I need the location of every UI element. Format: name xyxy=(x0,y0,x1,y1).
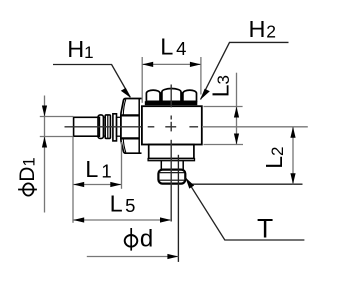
wire: extension line stud right (phi d) xyxy=(177,161,179,262)
wire: vertical centerline through body/stud xyxy=(170,85,172,222)
svg-text:T: T xyxy=(257,214,273,244)
node: thread reference tick xyxy=(177,155,179,161)
node: bottom collar xyxy=(148,145,194,161)
wire: centerline extension right xyxy=(202,126,308,128)
wire: L2 bottom extension xyxy=(189,183,303,185)
node: fitting body xyxy=(142,106,202,144)
dimension L4 xyxy=(142,57,201,103)
dimension L3 xyxy=(204,73,244,145)
dimension L5 xyxy=(73,219,171,221)
node: threaded stud xyxy=(158,170,185,184)
node: swivel hex nut xyxy=(121,99,142,154)
dimension L2 xyxy=(292,127,294,184)
svg-text:d: d xyxy=(140,225,153,252)
dimension phi d xyxy=(87,256,179,258)
dimension L1 xyxy=(73,137,122,223)
node: fitting stem (barb plug) xyxy=(74,114,121,141)
svg-text:L5: L5 xyxy=(110,190,136,216)
wire: horizontal centerline of stem/body xyxy=(65,126,199,128)
node: stud neck xyxy=(161,161,183,170)
node: top hex cap xyxy=(145,89,198,106)
dimension phiD1 xyxy=(40,96,74,213)
